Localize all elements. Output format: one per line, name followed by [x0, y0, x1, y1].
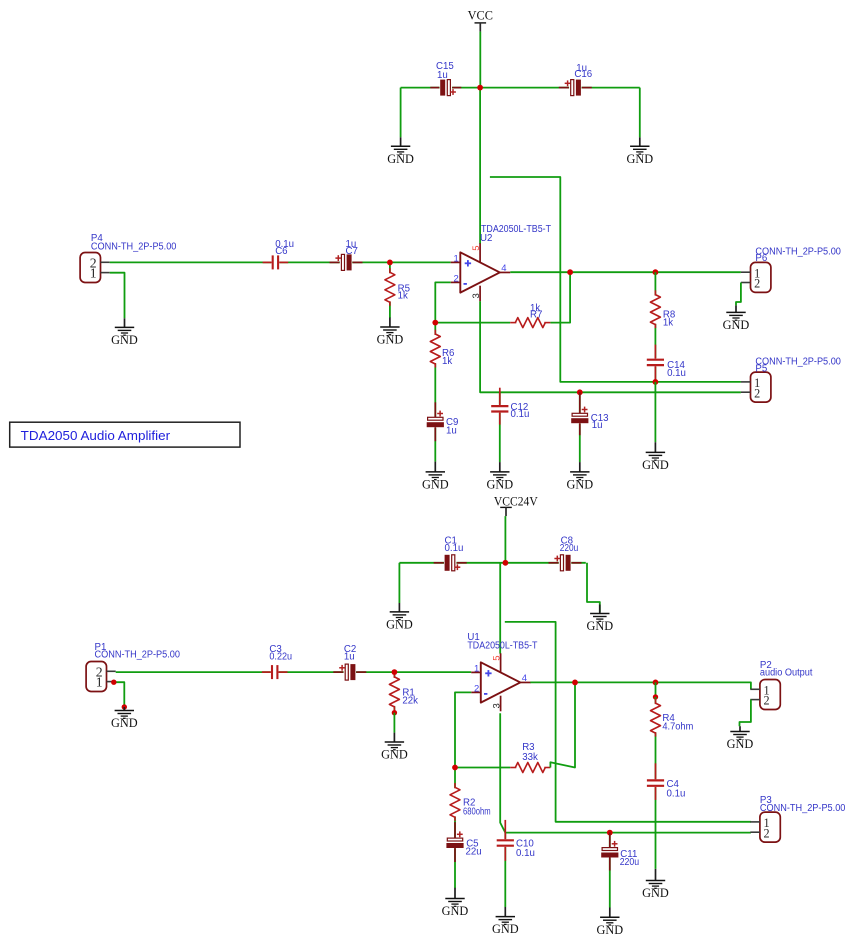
- wire P4 pin 1 to ground: [110, 273, 125, 319]
- U1 pin 1 stub: [471, 671, 481, 673]
- ground below C4: [642, 869, 669, 900]
- ground below P1: [111, 707, 138, 730]
- capacitor C10: [497, 820, 515, 861]
- U2 pin 1 stub: [451, 261, 461, 263]
- resistor R4: [649, 699, 663, 737]
- junction output feedback bottom: [572, 680, 578, 686]
- svg-text:CONN-TH_2P-P5.00: CONN-TH_2P-P5.00: [755, 357, 841, 368]
- svg-text:GND: GND: [387, 152, 414, 166]
- U1 minus input mark: [484, 693, 487, 695]
- op-amp U2 TDA2050: [451, 243, 511, 301]
- svg-text:GND: GND: [422, 478, 449, 492]
- svg-text:1k: 1k: [663, 317, 673, 328]
- wire rail to U1 pin 5: [499, 563, 501, 654]
- svg-text:GND: GND: [381, 748, 408, 762]
- svg-text:2: 2: [474, 683, 479, 694]
- capacitor C9: [427, 402, 445, 441]
- svg-text:GND: GND: [723, 318, 750, 332]
- wire VCC rail: [401, 87, 640, 89]
- wire U2 pin 3 to P5 pin 2: [480, 301, 741, 392]
- svg-text:220u: 220u: [560, 543, 579, 554]
- U2 pin 4 stub: [500, 271, 511, 273]
- wire node to R2 C5 ground: [454, 768, 456, 889]
- svg-text:GND: GND: [486, 478, 513, 492]
- wire rail to U2 pin 5: [479, 88, 481, 244]
- ground below C14: [642, 442, 669, 472]
- svg-text:GND: GND: [586, 619, 613, 633]
- svg-text:680ohm: 680ohm: [463, 807, 491, 818]
- wire R7 to output: [550, 272, 570, 322]
- capacitor C7: [330, 254, 363, 271]
- connector P1: [86, 662, 116, 692]
- svg-text:1u: 1u: [437, 70, 448, 81]
- svg-text:5: 5: [471, 245, 482, 250]
- ground below C12: [486, 462, 513, 491]
- resistor R2: [448, 783, 462, 821]
- wire R4 C4 to ground: [655, 697, 657, 869]
- ground below P4: [111, 318, 138, 347]
- wire node to ground: [654, 382, 656, 442]
- svg-text:CONN-TH_2P-P5.00: CONN-TH_2P-P5.00: [760, 803, 846, 814]
- svg-text:0.1u: 0.1u: [511, 409, 530, 420]
- wire output node to R4 top: [655, 682, 657, 697]
- U1 plus input mark: [485, 670, 491, 676]
- svg-text:1u: 1u: [592, 420, 603, 431]
- ground below C11: [596, 908, 623, 937]
- U2 pin 5 stub: [479, 243, 481, 262]
- capacitor C15: [430, 79, 461, 96]
- svg-text:R7: R7: [530, 310, 542, 321]
- ground below C8: [586, 605, 613, 634]
- svg-text:P6: P6: [755, 253, 767, 264]
- svg-text:1k: 1k: [442, 356, 452, 367]
- wire R3 to output diagonal: [550, 682, 575, 767]
- svg-text:33k: 33k: [522, 752, 538, 763]
- svg-text:220u: 220u: [620, 857, 640, 868]
- junction input node bottom: [392, 669, 398, 675]
- svg-text:3: 3: [471, 293, 482, 298]
- svg-text:VCC: VCC: [468, 9, 493, 23]
- capacitor C16: [559, 79, 592, 96]
- junction R1 bottom end: [392, 710, 397, 715]
- wire rail to GND right bottom: [587, 563, 600, 612]
- svg-text:3: 3: [492, 703, 503, 708]
- wire rail to GND left bottom: [398, 563, 400, 603]
- wire P2 pin 2 to ground: [740, 700, 751, 727]
- svg-text:GND: GND: [642, 458, 669, 472]
- svg-text:P5: P5: [755, 363, 767, 374]
- capacitor C3: [262, 665, 288, 680]
- wire output node to R8 C14: [654, 272, 656, 382]
- resistor R5: [383, 268, 397, 306]
- U2 plus input mark: [465, 260, 471, 266]
- svg-text:GND: GND: [386, 618, 413, 632]
- U1 pin 5 stub: [500, 653, 502, 672]
- svg-text:GND: GND: [442, 904, 469, 918]
- svg-text:1: 1: [474, 664, 479, 675]
- svg-text:0.1u: 0.1u: [667, 368, 686, 379]
- capacitor C6: [263, 255, 289, 270]
- svg-text:0.1u: 0.1u: [445, 543, 464, 554]
- junction feedback node: [432, 320, 438, 326]
- svg-text:TDA2050 Audio Amplifier: TDA2050 Audio Amplifier: [21, 428, 171, 443]
- svg-text:1u: 1u: [344, 651, 355, 662]
- wire P4 pin 2 to U2 pin 1: [110, 261, 451, 263]
- svg-text:22k: 22k: [402, 695, 418, 706]
- wire U1 pin 2 to node: [455, 692, 471, 767]
- capacitor C11: [601, 833, 619, 871]
- svg-text:GND: GND: [111, 716, 138, 730]
- svg-text:GND: GND: [111, 333, 138, 347]
- svg-text:4: 4: [501, 263, 506, 274]
- connector P4: [80, 253, 110, 283]
- svg-text:4: 4: [522, 673, 527, 684]
- svg-text:GND: GND: [566, 478, 593, 492]
- capacitor C12: [491, 388, 509, 425]
- wire node to R5 and ground: [389, 262, 391, 318]
- wire node to R6 C9 ground: [434, 323, 436, 462]
- ground below C1: [386, 603, 413, 632]
- U2 pin 2 stub: [451, 281, 461, 283]
- wire node to R1: [393, 672, 395, 713]
- wire VCC24V rail: [399, 562, 585, 564]
- junction VCC rail: [477, 85, 483, 91]
- junction output R4: [653, 680, 659, 686]
- svg-text:22u: 22u: [466, 847, 482, 858]
- svg-text:1: 1: [454, 254, 459, 265]
- svg-text:2: 2: [754, 277, 760, 291]
- ground below P6: [723, 305, 750, 332]
- power flag VCC: [475, 23, 487, 32]
- wire U1 pin 3 down with jog: [500, 713, 505, 832]
- capacitor C8: [549, 554, 582, 571]
- wire VCC to rail: [479, 32, 481, 88]
- svg-text:CONN-TH_2P-P5.00: CONN-TH_2P-P5.00: [755, 247, 841, 258]
- junction R4 top end: [653, 694, 658, 699]
- wire rail to GND right: [639, 88, 641, 138]
- ground below P2: [727, 726, 754, 751]
- ground below C9: [422, 462, 449, 492]
- svg-text:audio Output: audio Output: [760, 667, 813, 678]
- wire P1 pin 2 to U1 pin 1: [116, 671, 472, 673]
- U2 minus input mark: [464, 283, 467, 285]
- wire node to R3: [455, 767, 510, 769]
- connector P2: [750, 680, 780, 710]
- resistor R8: [649, 290, 663, 328]
- wire U2 output to P6 pin 1: [510, 271, 741, 273]
- wire bus to C13: [579, 392, 581, 462]
- resistor R6: [429, 330, 443, 368]
- wire rail to GND left: [400, 88, 402, 138]
- svg-text:GND: GND: [492, 922, 519, 936]
- svg-text:GND: GND: [642, 886, 669, 900]
- junction VCC24V rail: [503, 560, 509, 566]
- svg-text:C7: C7: [346, 246, 358, 257]
- U1 pin 2 stub: [471, 691, 481, 693]
- capacitor C14: [647, 345, 665, 382]
- svg-text:2: 2: [764, 694, 770, 708]
- wire stub to P3 pin 1: [505, 622, 751, 822]
- ground below C15: [387, 137, 414, 166]
- capacitor C2: [333, 664, 366, 681]
- op-amp U1 TDA2050: [471, 653, 531, 711]
- junction C14 bottom: [653, 379, 659, 385]
- svg-text:1u: 1u: [446, 425, 457, 436]
- connector P6: [741, 262, 771, 292]
- junction input node: [387, 260, 393, 266]
- junction output R8: [653, 269, 659, 275]
- resistor R1: [388, 673, 402, 711]
- wire VCC24V to rail: [504, 516, 506, 563]
- svg-text:1k: 1k: [398, 290, 408, 301]
- ground below C16: [626, 137, 653, 166]
- U1 pin 3 stub: [500, 696, 502, 712]
- wire bus to C12: [499, 392, 501, 462]
- wire R1 to ground: [393, 713, 395, 733]
- capacitor C5: [446, 822, 464, 862]
- junction feedback node bottom: [452, 765, 458, 771]
- svg-text:TDA2050L-TB5-T: TDA2050L-TB5-T: [467, 641, 537, 652]
- svg-text:1: 1: [90, 266, 97, 281]
- capacitor C1: [434, 554, 467, 571]
- ground below R1: [381, 733, 408, 762]
- capacitor C13: [571, 392, 589, 435]
- svg-text:4.7ohm: 4.7ohm: [662, 721, 693, 732]
- resistor R3: [510, 761, 550, 775]
- ground below C10: [492, 907, 519, 936]
- power flag VCC24V: [500, 507, 512, 516]
- junction wire end above ground: [122, 704, 127, 709]
- svg-text:GND: GND: [596, 923, 623, 937]
- svg-text:GND: GND: [727, 737, 754, 751]
- svg-text:5: 5: [491, 655, 502, 660]
- connector P5: [741, 372, 771, 402]
- U2 pin 3 stub: [479, 286, 481, 302]
- ground below C13: [566, 462, 593, 491]
- svg-text:0.1u: 0.1u: [516, 848, 535, 859]
- svg-text:U2: U2: [480, 233, 492, 244]
- ground below C5: [442, 888, 469, 918]
- svg-text:CONN-TH_2P-P5.00: CONN-TH_2P-P5.00: [95, 649, 181, 660]
- svg-text:C6: C6: [275, 246, 287, 257]
- title box TDA2050 Audio Amplifier: [10, 422, 240, 447]
- ground below R5: [377, 318, 404, 347]
- connector P3: [750, 812, 780, 842]
- wire stub to P5 pin 1: [490, 177, 741, 382]
- svg-text:VCC24V: VCC24V: [494, 494, 538, 508]
- junction output feedback: [567, 269, 573, 275]
- wire P6 pin 2 to ground: [736, 283, 741, 306]
- svg-text:CONN-TH_2P-P5.00: CONN-TH_2P-P5.00: [91, 241, 177, 252]
- svg-text:0.22u: 0.22u: [269, 651, 292, 662]
- wire bus to C11 ground: [609, 833, 611, 908]
- svg-text:1: 1: [96, 675, 103, 690]
- junction C13 top: [577, 389, 583, 395]
- U1 pin 4 stub: [520, 681, 531, 683]
- wire P1 pin 1 to ground: [114, 682, 125, 707]
- wire U2 pin 2 to node: [435, 282, 450, 322]
- junction C11 top: [607, 830, 613, 836]
- wire bus to P3 pin 2: [505, 832, 751, 834]
- wire bus to C10 ground: [504, 833, 506, 907]
- svg-text:2: 2: [454, 273, 459, 284]
- svg-text:GND: GND: [377, 333, 404, 347]
- svg-text:C16: C16: [574, 69, 592, 80]
- capacitor C4: [647, 763, 665, 800]
- wire node to R7: [435, 322, 510, 324]
- svg-text:2: 2: [764, 826, 770, 840]
- junction P1 pin 1 end: [111, 680, 116, 685]
- svg-text:GND: GND: [626, 152, 653, 166]
- wire U1 output to P2 pin 1: [530, 682, 751, 689]
- svg-text:2: 2: [754, 386, 760, 400]
- svg-text:0.1u: 0.1u: [667, 789, 686, 800]
- resistor R7: [510, 316, 550, 330]
